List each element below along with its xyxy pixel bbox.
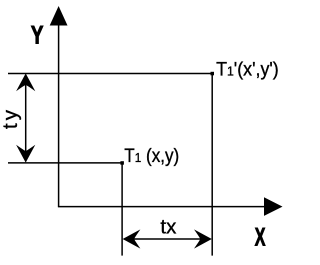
wire: top horizontal line (translated rect top edge + ty reference) — [8, 73, 212, 75]
wire: right vertical line (translated rect right edge + tx reference) — [211, 74, 213, 256]
svg-text:tx: tx — [160, 216, 177, 239]
node T1' marker — [211, 72, 215, 76]
dimension arrow ty — [16, 73, 35, 162]
dimension arrow tx — [123, 229, 212, 248]
node T1 marker — [120, 161, 124, 165]
svg-text:T1'(x',y'): T1'(x',y') — [216, 58, 279, 80]
X axis — [58, 197, 283, 216]
svg-text:ty: ty — [0, 107, 22, 129]
Y axis — [50, 6, 68, 207]
wire: middle vertical line (original rect right edge + tx reference) — [121, 163, 123, 256]
wire: middle horizontal line (original rect top edge + ty reference) — [8, 162, 122, 164]
svg-text:X: X — [255, 224, 266, 252]
svg-text:T1 (x,y): T1 (x,y) — [124, 145, 179, 166]
svg-text:Y: Y — [31, 21, 44, 49]
